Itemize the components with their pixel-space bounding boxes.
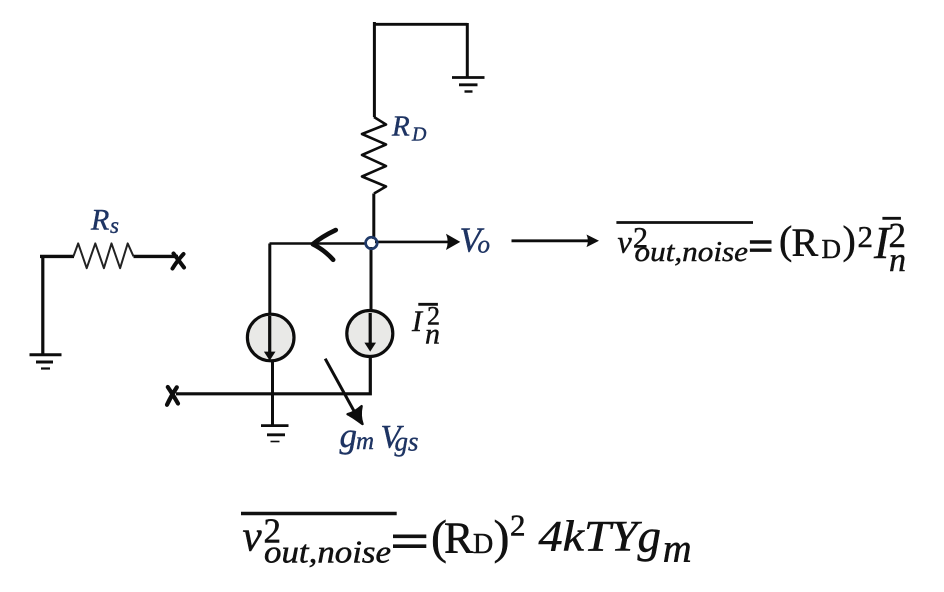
current source I2 (In2) body <box>347 311 393 357</box>
svg-text:m: m <box>356 428 374 455</box>
formula right: v2outnoise = (RD)^2 In^2 <box>616 216 906 279</box>
svg-text:2: 2 <box>510 508 526 543</box>
ground (bottom middle) <box>261 426 289 442</box>
svg-text:out,noise: out,noise <box>635 237 749 268</box>
arrowhead Vo <box>446 234 460 250</box>
node (output node circle) <box>366 237 378 249</box>
svg-text:R: R <box>391 111 410 143</box>
resistor RD <box>362 117 386 194</box>
arrow to noise formula <box>512 239 591 242</box>
svg-text:o: o <box>478 231 491 258</box>
svg-text:2: 2 <box>858 219 874 254</box>
svg-text:R: R <box>444 514 474 563</box>
wire I1 to ground <box>271 361 274 426</box>
x mark (source, bottom) <box>167 387 178 405</box>
svg-text:v: v <box>243 514 263 561</box>
current source I1 (gmVgs) body <box>247 314 294 361</box>
svg-text:m: m <box>663 526 692 571</box>
svg-text:R: R <box>90 204 109 237</box>
current source I1 arrow <box>268 316 271 353</box>
svg-text:I: I <box>411 305 424 338</box>
ground (top right) <box>452 78 485 92</box>
svg-text:gs: gs <box>395 427 419 457</box>
svg-text:out,noise: out,noise <box>264 533 391 569</box>
formula bottom: v2outnoise = (RD)^2 4kTYgm <box>241 508 692 571</box>
wire node down to I2 <box>370 247 373 312</box>
arrow gmVgs (diagonal dependent-source arrow) <box>325 359 356 415</box>
ground (left) <box>30 355 62 369</box>
wire source left vertical <box>41 255 44 355</box>
svg-text:(: ( <box>779 218 792 263</box>
svg-text:v: v <box>618 223 633 259</box>
label In^2 <box>411 302 440 351</box>
svg-text:R: R <box>792 220 819 265</box>
svg-text:D: D <box>473 529 493 560</box>
svg-text:): ) <box>494 511 510 564</box>
wire top-right vertical to ground <box>466 23 469 77</box>
svg-text:D: D <box>822 234 842 264</box>
wire Rs left segment <box>40 255 74 258</box>
wire node to Vo <box>375 241 449 244</box>
svg-text:g: g <box>638 511 662 563</box>
svg-text:s: s <box>110 213 119 238</box>
resistor Rs <box>73 243 133 268</box>
wire I2 to bottom rail <box>176 356 370 394</box>
svg-text:n: n <box>425 318 440 351</box>
svg-text:4kTY: 4kTY <box>539 514 643 561</box>
open arrowhead on gate wire <box>313 230 336 260</box>
wire node to gate (left) <box>270 242 368 245</box>
x mark (gate, top) <box>173 254 185 269</box>
wire VDD vertical stub <box>373 22 376 117</box>
wire VDD top horizontal <box>373 23 467 26</box>
wire Rs right segment <box>134 255 179 258</box>
current source I2 arrow <box>369 313 372 344</box>
svg-text:g: g <box>340 416 358 455</box>
wire left branch vertical <box>268 244 271 319</box>
wire RD to node <box>372 194 375 240</box>
svg-text:D: D <box>411 124 427 146</box>
svg-text:): ) <box>843 218 856 263</box>
svg-text:n: n <box>889 242 906 279</box>
